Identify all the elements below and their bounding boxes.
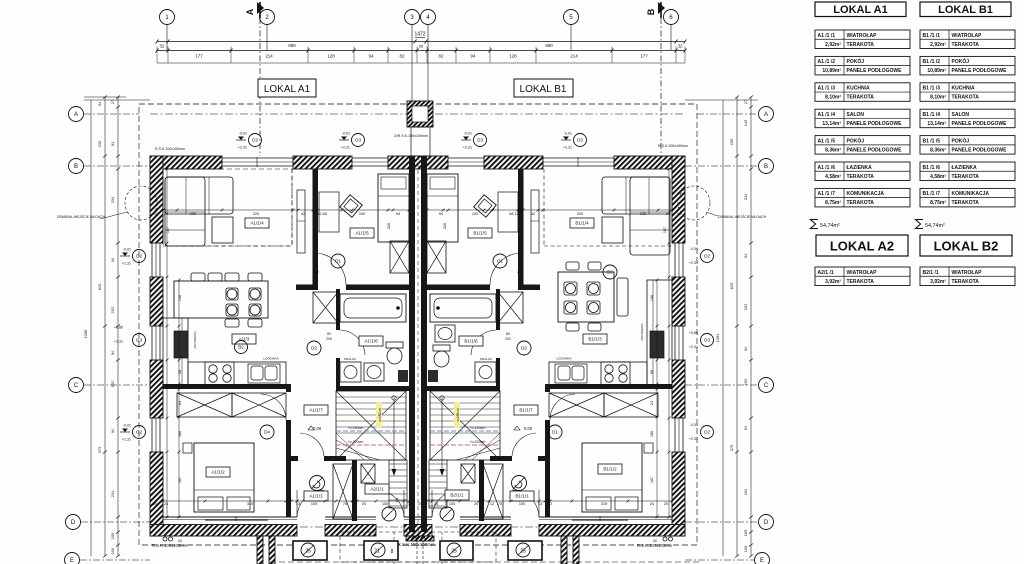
bedroom B west wall V2-B bbox=[545, 389, 550, 392]
room label B1/1/1 bbox=[510, 491, 534, 501]
svg-text:375: 375 bbox=[729, 445, 734, 452]
exterior wall right segment 3 bbox=[672, 360, 685, 418]
svg-text:80: 80 bbox=[506, 332, 510, 336]
svg-text:B1 /1 /5: B1 /1 /5 bbox=[923, 138, 941, 144]
svg-text:+2,31: +2,31 bbox=[122, 262, 131, 266]
window top W1 bbox=[222, 157, 293, 167]
svg-text:B1/1/3: B1/1/3 bbox=[588, 337, 602, 342]
table row B1 /1 /6 bbox=[920, 162, 1015, 181]
svg-text:145: 145 bbox=[743, 120, 748, 127]
entry marker A2/1/1 bbox=[382, 507, 396, 521]
svg-text:LOKAL A1: LOKAL A1 bbox=[833, 4, 887, 16]
svg-text:h=160cm: h=160cm bbox=[349, 426, 364, 430]
svg-text:PANELE PODŁOGOWE: PANELE PODŁOGOWE bbox=[847, 68, 903, 74]
stairs B lower flight bbox=[429, 460, 447, 508]
svg-text:+2,31: +2,31 bbox=[238, 146, 247, 150]
wardrobe X A1/1/5 bbox=[390, 241, 409, 273]
svg-text:SALON: SALON bbox=[847, 112, 865, 118]
left dimension chain lines bbox=[84, 96, 150, 558]
svg-text:8: 8 bbox=[391, 549, 394, 555]
party wall joint gap bbox=[417, 156, 419, 532]
svg-text:100: 100 bbox=[743, 545, 748, 552]
tall wardrobe X B1/1/1 bbox=[483, 464, 503, 519]
window left L1 bbox=[152, 243, 160, 277]
svg-text:130: 130 bbox=[190, 212, 196, 216]
svg-text:A: A bbox=[245, 8, 255, 15]
svg-text:13: 13 bbox=[538, 502, 542, 506]
svg-text:PANELE PODŁOGOWE: PANELE PODŁOGOWE bbox=[847, 121, 903, 127]
svg-text:234: 234 bbox=[743, 488, 748, 495]
table row A1 /1 /3 bbox=[815, 83, 910, 102]
bedroom A east wall V2 bbox=[286, 389, 291, 392]
window top W2 bbox=[352, 158, 388, 166]
grid axis circle 6 bbox=[664, 10, 679, 25]
interior dims under top wall bbox=[154, 212, 681, 216]
svg-text:R.S.K.100x100mm: R.S.K.100x100mm bbox=[658, 144, 688, 148]
svg-text:TERAKOTA: TERAKOTA bbox=[847, 200, 875, 206]
downpipes bottom-left corner bbox=[163, 537, 167, 541]
door bathroom B bbox=[471, 330, 496, 355]
stairs A level line blue bbox=[336, 430, 406, 432]
section line A-A bbox=[259, 18, 261, 156]
svg-text:150: 150 bbox=[743, 378, 748, 385]
gutter dash-dot line bbox=[150, 113, 685, 115]
table row B1 /1 /2 bbox=[920, 56, 1015, 75]
svg-text:D1: D1 bbox=[552, 430, 558, 435]
svg-text:D1: D1 bbox=[335, 259, 341, 264]
svg-text:8: 8 bbox=[445, 502, 447, 506]
svg-text:2,92m²: 2,92m² bbox=[930, 42, 946, 48]
grid axis circle 4 bbox=[421, 10, 436, 25]
svg-text:A: A bbox=[764, 112, 768, 118]
svg-text:-0,01: -0,01 bbox=[564, 132, 572, 136]
svg-text:PANELE PODŁOGOWE: PANELE PODŁOGOWE bbox=[952, 68, 1008, 74]
svg-text:TERAKOTA: TERAKOTA bbox=[952, 42, 980, 48]
room label A1/1/5 bbox=[350, 228, 374, 238]
chair B1/1/5 bbox=[474, 195, 497, 218]
svg-text:-0,01: -0,01 bbox=[123, 248, 131, 252]
level marker O3 right 2 bbox=[701, 334, 714, 347]
sofa A1/1/4 bbox=[165, 177, 233, 214]
svg-text:A1/1/6: A1/1/6 bbox=[364, 339, 378, 344]
svg-text:220: 220 bbox=[577, 212, 583, 216]
svg-text:-0,01: -0,01 bbox=[239, 132, 247, 136]
svg-text:+2,31: +2,31 bbox=[114, 340, 123, 344]
svg-text:B1/1/5: B1/1/5 bbox=[473, 231, 487, 236]
svg-text:+2,31: +2,31 bbox=[689, 437, 698, 441]
svg-text:24: 24 bbox=[418, 502, 422, 506]
svg-text:LODÓWKA: LODÓWKA bbox=[263, 356, 278, 361]
exterior wall left segment 1 bbox=[150, 156, 163, 243]
window tag box 25 a bbox=[293, 541, 327, 560]
grid axis circle 5 bbox=[564, 10, 579, 25]
right dimension chain lines bbox=[685, 96, 758, 558]
svg-text:+0,86: +0,86 bbox=[114, 326, 123, 330]
svg-text:B1 /1 /7: B1 /1 /7 bbox=[923, 191, 941, 197]
stairs A lower flight bbox=[389, 460, 407, 508]
window tag box 25 d bbox=[508, 541, 542, 560]
svg-text:B1/1/1: B1/1/1 bbox=[515, 494, 529, 499]
coffee table B1/1/4 bbox=[602, 217, 623, 243]
roof ladder dashed circle right bbox=[678, 186, 710, 220]
toilet B1/1/6 bbox=[433, 345, 450, 351]
toilet A1/1/6 bbox=[386, 342, 403, 348]
party wall left leaf bbox=[409, 156, 415, 532]
grid row circle D left bbox=[66, 515, 81, 530]
grid row circle C right bbox=[759, 378, 774, 393]
svg-text:-0,01: -0,01 bbox=[464, 132, 472, 136]
svg-text:319: 319 bbox=[601, 502, 607, 506]
door tag B2 kitchen B bbox=[603, 265, 617, 279]
bed A1/1/5 bbox=[378, 174, 409, 242]
svg-text:+2,31: +2,31 bbox=[341, 146, 350, 150]
svg-text:234: 234 bbox=[110, 196, 115, 203]
vestibule wardrobe wall V3 bbox=[352, 460, 357, 521]
interior dims bottom row bbox=[153, 497, 668, 506]
stairs B level line blue bbox=[430, 430, 500, 432]
service box B bath bbox=[428, 370, 438, 382]
svg-text:2xR.S.K.100x100mm: 2xR.S.K.100x100mm bbox=[394, 134, 428, 138]
room boundary dashed A1/1/4 bbox=[163, 169, 292, 246]
svg-text:25: 25 bbox=[451, 549, 457, 555]
small X-box A2 under-stair bbox=[361, 464, 375, 483]
section marker B bbox=[646, 2, 665, 18]
table header LOKAL B2 bbox=[920, 235, 1012, 256]
table row A2/1/1 bbox=[815, 267, 910, 286]
svg-text:LOKAL B1: LOKAL B1 bbox=[938, 4, 993, 16]
svg-text:220: 220 bbox=[253, 212, 259, 216]
bottom wall outer hatched leaf 4 bbox=[460, 525, 511, 537]
desk B1/1/5 bbox=[498, 192, 518, 232]
bottom wall outer hatched leaf 5 bbox=[539, 525, 685, 537]
svg-text:12 68: 12 68 bbox=[317, 212, 327, 216]
svg-text:O2: O2 bbox=[704, 430, 711, 435]
svg-text:+2,31: +2,31 bbox=[122, 438, 131, 442]
svg-text:100: 100 bbox=[519, 502, 525, 506]
entry marker B1/1/1 bbox=[512, 476, 527, 491]
svg-text:100: 100 bbox=[311, 502, 317, 506]
section line B-B bbox=[660, 18, 662, 156]
door D1 bedroom A opening bbox=[314, 253, 346, 285]
exterior wall left segment 4 bbox=[150, 452, 163, 536]
corridor/vestibule wall H3 right bbox=[538, 456, 545, 461]
plates dining A bbox=[227, 289, 237, 299]
svg-text:24: 24 bbox=[422, 212, 426, 216]
svg-text:20: 20 bbox=[362, 502, 366, 506]
grid axis leader lines bbox=[167, 25, 671, 102]
bathroom B west wall bbox=[496, 289, 500, 330]
table row B1 /1 /4 bbox=[920, 109, 1015, 128]
svg-text:91: 91 bbox=[110, 142, 115, 146]
svg-text:375: 375 bbox=[97, 447, 102, 454]
svg-text:TERAKOTA: TERAKOTA bbox=[952, 200, 980, 206]
svg-text:27: 27 bbox=[743, 100, 748, 104]
svg-text:187: 187 bbox=[650, 477, 654, 483]
stairs B level line red bbox=[430, 444, 500, 446]
service box A bath bbox=[398, 370, 408, 382]
chair squares dining A bbox=[226, 288, 238, 300]
grid row circle A left bbox=[69, 107, 84, 122]
svg-text:8,36m²: 8,36m² bbox=[825, 147, 841, 153]
downpipe circles bbox=[412, 537, 416, 541]
fridge A bbox=[174, 331, 188, 358]
svg-text:O3: O3 bbox=[136, 338, 143, 343]
bottom wall outer hatched leaf 1 bbox=[150, 525, 297, 537]
svg-text:SALON: SALON bbox=[952, 112, 970, 118]
door vestibule B1/1/1 bbox=[512, 433, 536, 456]
table header LOKAL A1 bbox=[815, 2, 906, 17]
svg-text:180: 180 bbox=[650, 431, 654, 437]
svg-text:+2,31: +2,31 bbox=[689, 345, 698, 349]
dimension line row 2 bbox=[156, 47, 687, 64]
svg-text:24: 24 bbox=[164, 212, 168, 216]
svg-text:D: D bbox=[71, 520, 76, 526]
window tag box 21 b bbox=[364, 541, 398, 560]
room label B1/1/2 bbox=[598, 464, 622, 474]
door tag D1 A side bbox=[331, 254, 345, 268]
sofa B1/1/4 bbox=[602, 177, 670, 214]
interior dim line below top wall left bbox=[162, 209, 411, 212]
svg-text:E: E bbox=[760, 558, 764, 564]
svg-text:B: B bbox=[646, 8, 656, 15]
svg-text:615: 615 bbox=[729, 283, 734, 290]
svg-text:B1/1/2: B1/1/2 bbox=[603, 467, 617, 472]
svg-text:10,89m²: 10,89m² bbox=[927, 68, 946, 74]
svg-text:KOMUNIKACJA: KOMUNIKACJA bbox=[952, 191, 990, 197]
svg-text:O2: O2 bbox=[577, 138, 584, 143]
window bottom B2w bbox=[572, 516, 628, 521]
interior wall H1-B bbox=[427, 285, 490, 291]
svg-text:PANELE PODŁOGOWE: PANELE PODŁOGOWE bbox=[952, 121, 1008, 127]
room label A1/1/3 bbox=[232, 334, 256, 344]
svg-text:POKÓJ: POKÓJ bbox=[952, 57, 970, 65]
svg-text:s=180cm: s=180cm bbox=[456, 408, 460, 421]
door tag D2 A side bbox=[307, 341, 321, 355]
exterior wall top-left segment bbox=[150, 156, 222, 169]
svg-text:D4: D4 bbox=[264, 430, 270, 435]
bathtub B1/1/6 bbox=[430, 294, 496, 322]
stove A bbox=[205, 362, 234, 385]
svg-text:+2,31: +2,31 bbox=[689, 261, 698, 265]
svg-text:111: 111 bbox=[395, 497, 399, 503]
svg-text:O2: O2 bbox=[252, 138, 259, 143]
wardrobe band bedroom A bbox=[177, 393, 232, 417]
kitchen counter bottom A bbox=[188, 362, 286, 385]
svg-text:128: 128 bbox=[509, 54, 517, 59]
svg-text:100: 100 bbox=[359, 212, 365, 216]
svg-text:-0,01: -0,01 bbox=[342, 132, 350, 136]
svg-text:80: 80 bbox=[327, 332, 331, 336]
svg-text:24: 24 bbox=[434, 502, 438, 506]
interior wall H1 (below bedroom A1/1/5) bbox=[296, 285, 314, 291]
window top W4 bbox=[543, 157, 614, 167]
grid axis circle 3 bbox=[405, 10, 420, 25]
svg-text:2xR.S.K.100x100mm: 2xR.S.K.100x100mm bbox=[393, 542, 435, 547]
svg-text:4,58m²: 4,58m² bbox=[825, 174, 841, 180]
svg-text:TERAKOTA: TERAKOTA bbox=[847, 42, 875, 48]
sink B bbox=[555, 364, 587, 383]
sink A bbox=[248, 364, 280, 383]
svg-text:32: 32 bbox=[160, 44, 165, 49]
svg-text:TERAKOTA: TERAKOTA bbox=[952, 174, 980, 180]
svg-text:3,92m²: 3,92m² bbox=[930, 279, 946, 285]
exterior wall right segment 2 bbox=[672, 277, 685, 326]
svg-text:TERAKOTA: TERAKOTA bbox=[952, 95, 980, 101]
svg-text:-0,01: -0,01 bbox=[690, 423, 698, 427]
svg-text:B1 /1 /1: B1 /1 /1 bbox=[923, 33, 941, 39]
svg-text:D1: D1 bbox=[497, 259, 503, 264]
svg-text:20: 20 bbox=[664, 502, 668, 506]
exterior wall top segment 4 bbox=[484, 156, 543, 169]
svg-text:KOMUNIKACJA: KOMUNIKACJA bbox=[847, 191, 885, 197]
svg-text:WIATROŁAP: WIATROŁAP bbox=[847, 270, 878, 276]
svg-text:8,36m²: 8,36m² bbox=[930, 147, 946, 153]
party wall right leaf bbox=[421, 156, 427, 532]
svg-text:B1 /1 /2: B1 /1 /2 bbox=[923, 59, 941, 65]
stairs A marker yellow bbox=[376, 402, 382, 428]
svg-text:12: 12 bbox=[490, 502, 494, 506]
door bedroom A1/1/2 bbox=[261, 394, 286, 420]
svg-text:64: 64 bbox=[178, 401, 182, 405]
svg-text:B2: B2 bbox=[607, 270, 613, 275]
svg-text:234: 234 bbox=[110, 490, 115, 497]
svg-text:D2: D2 bbox=[311, 346, 317, 351]
door tag D2 B side bbox=[517, 341, 531, 355]
svg-text:187: 187 bbox=[178, 477, 182, 483]
svg-text:152: 152 bbox=[743, 304, 748, 311]
svg-text:PRALKA: PRALKA bbox=[480, 357, 492, 361]
svg-text:200: 200 bbox=[505, 337, 511, 341]
svg-text:A2/1 /1: A2/1 /1 bbox=[818, 270, 834, 276]
shaft X corridor A bbox=[313, 292, 338, 323]
washbasin A1/1/6 bbox=[364, 363, 384, 381]
svg-text:100: 100 bbox=[382, 502, 388, 506]
svg-text:24: 24 bbox=[650, 401, 654, 405]
room label A1/1/6 bbox=[359, 336, 383, 346]
svg-text:LOKAL B2: LOKAL B2 bbox=[934, 239, 999, 254]
svg-text:80: 80 bbox=[314, 264, 318, 268]
svg-text:1299: 1299 bbox=[83, 330, 88, 339]
window right R1 bbox=[675, 243, 683, 277]
svg-text:A1/1/4: A1/1/4 bbox=[250, 221, 264, 226]
svg-text:68 12: 68 12 bbox=[509, 212, 519, 216]
svg-text:75: 75 bbox=[343, 502, 347, 506]
salon A dashed boundary bbox=[163, 245, 292, 247]
desk A1/1/5 bbox=[319, 192, 339, 232]
svg-text:A1 /1 /3: A1 /1 /3 bbox=[818, 86, 836, 92]
svg-text:WIATROŁAP: WIATROŁAP bbox=[952, 33, 983, 39]
table row B1 /1 /7 bbox=[920, 188, 1015, 207]
svg-text:146: 146 bbox=[650, 295, 654, 301]
svg-text:B2/1/1: B2/1/1 bbox=[450, 493, 464, 498]
door dim texts bbox=[313, 264, 523, 341]
table row B1 /1 /1 bbox=[920, 30, 1015, 49]
party wall footing hatch bbox=[406, 536, 434, 541]
door bathroom A bbox=[340, 330, 365, 355]
svg-text:94: 94 bbox=[471, 54, 476, 59]
room label B2/1/1 bbox=[445, 490, 469, 500]
window right R3 bbox=[675, 418, 683, 452]
exterior wall top segment 2 bbox=[293, 156, 352, 169]
exterior wall top-right segment bbox=[614, 156, 685, 169]
bed B1/1/5 bbox=[427, 174, 458, 242]
grid row circle A right bbox=[759, 107, 774, 122]
interior dim line bottom left bbox=[162, 500, 411, 503]
svg-text:8,10m²: 8,10m² bbox=[825, 95, 841, 101]
svg-text:A: A bbox=[74, 112, 78, 118]
svg-text:200: 200 bbox=[326, 337, 332, 341]
svg-text:D: D bbox=[764, 520, 769, 526]
svg-text:A2/1/1: A2/1/1 bbox=[370, 487, 384, 492]
svg-text:12: 12 bbox=[352, 502, 356, 506]
porch dashed verticals bbox=[416, 536, 418, 564]
eave dash-dot line bottom bbox=[150, 526, 685, 528]
interior dim line left inner bbox=[166, 168, 169, 519]
svg-text:8,75m²: 8,75m² bbox=[930, 200, 946, 206]
svg-text:58: 58 bbox=[178, 370, 182, 374]
stairs A level line red bbox=[336, 444, 406, 446]
svg-text:R.S.K.100x100mm: R.S.K.100x100mm bbox=[152, 543, 188, 548]
coffee table A1/1/4 bbox=[212, 217, 233, 243]
bathtub A1/1/6 bbox=[340, 294, 406, 322]
svg-text:28: 28 bbox=[419, 44, 424, 49]
exterior wall top segment 3 bbox=[388, 156, 448, 169]
exterior wall right segment 1 bbox=[672, 156, 685, 243]
interior dim line right inner bbox=[668, 168, 671, 519]
svg-text:PRALKA: PRALKA bbox=[344, 357, 356, 361]
table row A1 /1 /2 bbox=[815, 56, 910, 75]
svg-text:ZMYWARKA: ZMYWARKA bbox=[193, 331, 197, 348]
table row B1 /1 /5 bbox=[920, 136, 1015, 155]
svg-text:A1/1/2: A1/1/2 bbox=[211, 470, 225, 475]
plates dining B bbox=[566, 284, 576, 294]
svg-text:180: 180 bbox=[178, 431, 182, 437]
svg-text:42: 42 bbox=[531, 212, 535, 216]
svg-text:TERAKOTA: TERAKOTA bbox=[847, 95, 875, 101]
svg-text:94: 94 bbox=[369, 54, 374, 59]
washing machine B1/1/6 bbox=[475, 362, 496, 382]
svg-text:94: 94 bbox=[439, 212, 443, 216]
svg-text:-0,01: -0,01 bbox=[123, 424, 131, 428]
svg-text:B1 /1 /4: B1 /1 /4 bbox=[923, 112, 941, 118]
table row A1 /1 /6 bbox=[815, 162, 910, 181]
exterior wall right segment 4 bbox=[672, 452, 685, 536]
table row A1 /1 /1 bbox=[815, 30, 910, 49]
wardrobe niche salon B bbox=[531, 190, 539, 253]
svg-text:C: C bbox=[764, 383, 769, 389]
svg-text:214: 214 bbox=[265, 54, 273, 59]
svg-text:10: 10 bbox=[677, 212, 681, 216]
svg-text:LOKAL A1: LOKAL A1 bbox=[264, 84, 311, 95]
stairs B walk line arrow bbox=[440, 396, 445, 476]
svg-text:WIATROŁAP: WIATROŁAP bbox=[847, 33, 878, 39]
level mark 0.00 B bbox=[514, 426, 533, 431]
svg-text:+0,86: +0,86 bbox=[689, 331, 698, 335]
svg-text:O2: O2 bbox=[136, 254, 143, 259]
corridor/vestibule wall H3 left bbox=[291, 456, 298, 461]
svg-text:177: 177 bbox=[195, 54, 203, 59]
table row B2/1/1 bbox=[920, 267, 1015, 286]
svg-text:POKÓJ: POKÓJ bbox=[952, 136, 970, 144]
svg-text:27: 27 bbox=[110, 100, 115, 104]
label box LOKAL B1 bbox=[514, 79, 573, 97]
nightstand A1/1/2 bbox=[183, 443, 192, 453]
room label B1/1/5 bbox=[468, 228, 492, 238]
downpipes bottom-right corner bbox=[663, 537, 667, 541]
interior dims rotated sides bbox=[166, 223, 667, 483]
svg-text:R.S.K.100x100mm: R.S.K.100x100mm bbox=[155, 147, 185, 151]
svg-text:24: 24 bbox=[666, 212, 670, 216]
